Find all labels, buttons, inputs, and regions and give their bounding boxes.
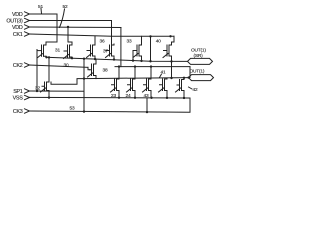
label 36 [100, 39, 105, 45]
node OUT(3) input label [6, 19, 23, 25]
label 41 [161, 70, 166, 76]
junction CK3 x147 [146, 111, 148, 113]
svg-text:31: 31 [55, 48, 60, 54]
wire OUT(3) drop to T36 drain [111, 21, 113, 45]
connector chevron CK3 [25, 109, 30, 113]
label 53 [70, 106, 75, 112]
svg-text:OUT(3): OUT(3) [6, 19, 23, 25]
svg-text:38: 38 [103, 68, 108, 74]
svg-text:24: 24 [126, 93, 131, 99]
transistor 38 [88, 59, 97, 79]
transistor 37 [87, 44, 96, 59]
svg-text:42: 42 [193, 87, 198, 93]
label 33 [127, 39, 132, 45]
leader 41 [160, 74, 162, 78]
connector chevron VDD [25, 25, 30, 29]
label (SR) [194, 53, 204, 59]
svg-text:43: 43 [144, 93, 149, 99]
wire VDD2 drop to drain line [120, 28, 122, 67]
label 24 [126, 93, 131, 99]
junction node x171.5 [170, 60, 172, 62]
svg-text:OUT(1): OUT(1) [191, 48, 206, 54]
wire CK2 to T38 gate [88, 67, 90, 69]
transistor 40 [163, 44, 172, 78]
wire T33 drain to CK1 [141, 36, 143, 44]
connector chevron VDD [25, 12, 30, 16]
junction out x184 [183, 77, 185, 79]
transistor 24 [127, 67, 136, 98]
label OUT(1) lower [190, 69, 205, 75]
svg-text:30: 30 [64, 63, 69, 69]
svg-text:33: 33 [127, 39, 132, 45]
junction drain x119 [118, 65, 120, 67]
node VDD input label [12, 12, 23, 18]
node VDD input label [12, 25, 23, 31]
junction VSS x135 [134, 97, 136, 99]
output terminal oval OUT(1)(SR) [188, 58, 213, 64]
wire VSS bus [30, 96, 191, 99]
svg-text:OUT(1): OUT(1) [190, 69, 205, 75]
wire T37 drain to CK1 [94, 36, 96, 44]
leader for 51 [40, 9, 43, 14]
junction x84 CK3 [83, 110, 85, 112]
wire VSS right corner down [189, 98, 191, 112]
wire VDD bus [30, 13, 58, 15]
leader 42 [189, 87, 193, 89]
wire VDD2 bus [30, 26, 121, 29]
junction node x133 [132, 59, 134, 61]
connector chevron CK2 [25, 63, 30, 67]
wire node A line [46, 57, 188, 61]
svg-text:52: 52 [63, 4, 68, 10]
leader for 52 [60, 9, 65, 28]
svg-text:CK1: CK1 [13, 32, 23, 38]
svg-text:(SR): (SR) [194, 53, 204, 59]
transistor 43 [143, 67, 152, 98]
label 30 [64, 63, 69, 69]
transistor 31 [37, 44, 46, 58]
junction out x188.7 [188, 76, 190, 78]
svg-text:VDD: VDD [12, 12, 23, 18]
wire drain line corner down [189, 67, 191, 78]
svg-text:SP1: SP1 [13, 89, 23, 95]
transistor 23 [111, 67, 120, 98]
label 42 [193, 87, 198, 93]
node CK3 input label [13, 109, 23, 115]
svg-text:23: 23 [111, 93, 116, 99]
connector chevron VSS [25, 95, 30, 99]
junction node x95 [94, 58, 96, 60]
junction node x141.5 [140, 60, 142, 62]
junction VSS x119 [118, 96, 120, 98]
output terminal oval OUT(1) lower [189, 75, 214, 81]
connector chevron CK1 [25, 32, 30, 36]
junction drain x151 [150, 65, 152, 67]
node SP1 input label [13, 89, 23, 95]
label OUT(1) top [191, 48, 206, 54]
junction out x171.5 [170, 77, 172, 79]
svg-text:VDD: VDD [12, 25, 23, 31]
label 23 [111, 93, 116, 99]
transistor 36 [106, 44, 115, 60]
junction VSS x167 [166, 97, 168, 99]
wire CK1 bus [30, 34, 175, 36]
label 40 [156, 39, 161, 45]
wire CK1 drop to T40 drain [172, 36, 175, 45]
junction node x150.5 [149, 60, 151, 62]
wire CK2 bus [30, 65, 89, 67]
connector chevron SP1 [25, 89, 30, 93]
transistor 33 [133, 44, 142, 61]
label 52 [63, 4, 68, 10]
junction VDD2 x68 [67, 26, 69, 28]
junction node left [45, 56, 47, 58]
wire VDD2 mid drop to T30 drain [68, 27, 72, 45]
label 37 [103, 49, 108, 55]
wire long vertical x84 node to CK3 [83, 59, 85, 112]
wire SP1 bus [30, 90, 85, 92]
svg-text:40: 40 [156, 39, 161, 45]
transistor 30 [64, 44, 73, 59]
junction node T32 top [48, 56, 50, 58]
svg-text:CK3: CK3 [13, 109, 23, 115]
wire CK3 bus [30, 111, 191, 112]
junction CK1 x170.5 [169, 35, 171, 37]
node VSS input label [13, 96, 24, 102]
svg-text:53: 53 [70, 106, 75, 112]
wire CK1 to node x150.5 [150, 36, 152, 61]
wire T40 source to output line [171, 56, 173, 78]
wire T31 gate vertical to SP1 [36, 50, 38, 92]
junction CK1 x150.5 [149, 35, 151, 37]
junction node x114 [113, 58, 115, 60]
junction drain x135 [134, 65, 136, 67]
wire VSS to CK3 x147 [146, 98, 148, 112]
wire OUT(3) bus [30, 20, 112, 22]
wire T33 gate to node [133, 51, 137, 61]
wire output line y78.6 to OUT(1) [84, 78, 189, 79]
node CK1 input label [13, 32, 23, 38]
junction VSS x49 [48, 96, 50, 98]
junction x84 output line [83, 77, 85, 79]
connector chevron OUT(3) [25, 18, 30, 22]
transistor 32 [41, 57, 85, 97]
svg-text:36: 36 [100, 39, 105, 45]
label 31 [55, 48, 60, 54]
svg-text:37: 37 [103, 49, 108, 55]
junction SP1 x37 [36, 90, 38, 92]
node CK2 input label [13, 63, 23, 69]
svg-text:VSS: VSS [13, 96, 24, 102]
wire drain line y66.6 [115, 66, 190, 68]
junction node x72 [71, 57, 73, 59]
label 32 [35, 86, 40, 92]
wire VDD drop to T31 drain [46, 14, 57, 45]
junction node x84 [83, 58, 85, 60]
label 38 [103, 68, 108, 74]
label 51 [38, 4, 43, 10]
transistor 41 [159, 78, 168, 98]
label 43 [144, 93, 149, 99]
junction VSS x184 [183, 97, 185, 99]
svg-text:CK2: CK2 [13, 63, 23, 69]
junction VSS x151.5 [150, 97, 152, 99]
transistor 42 [176, 78, 185, 98]
